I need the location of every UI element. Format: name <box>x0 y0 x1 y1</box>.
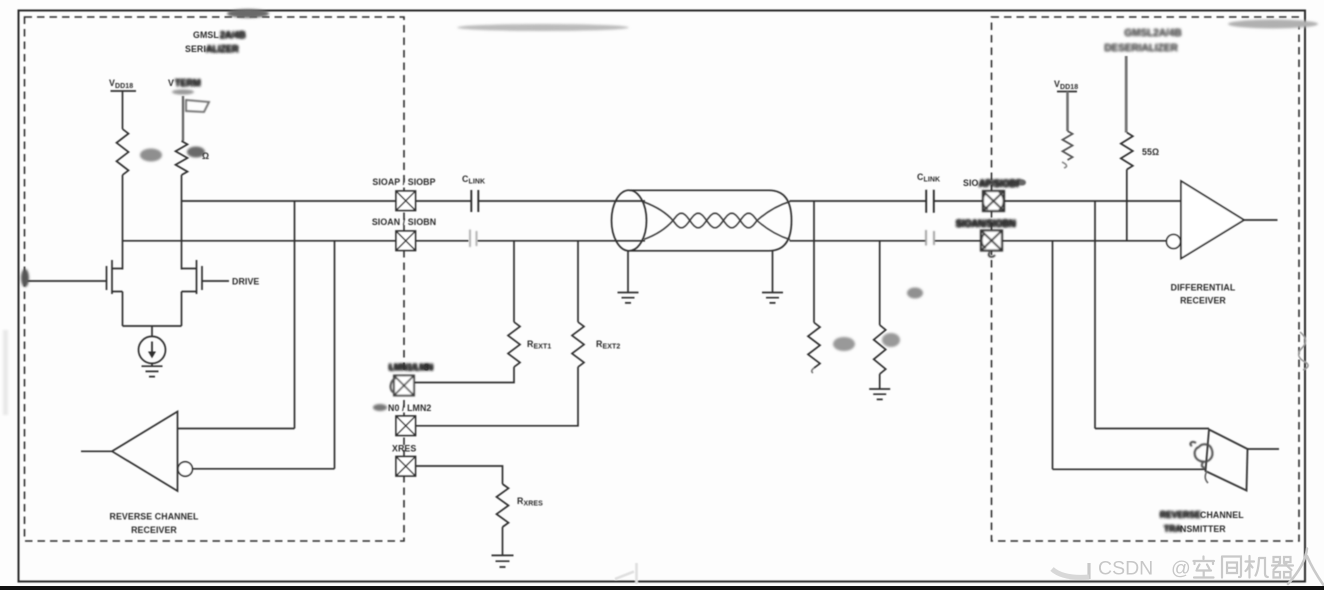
smudge label beside RT1 <box>833 337 855 351</box>
resistor RT1 (no ground, fades) <box>808 323 820 369</box>
svg-text:DRIVE: DRIVE <box>232 277 259 287</box>
twisted pair strand B <box>673 213 757 228</box>
smudged dashes on bottom dashed line (left) <box>200 539 420 543</box>
wire SIOAP to transmitter input (top) <box>1095 201 1209 429</box>
scan smear on transmitter feedback wire <box>1095 300 1097 420</box>
wire R2 to SIOAP line and Q2 drain <box>181 175 183 270</box>
svg-text:CHANNEL: CHANNEL <box>1200 510 1244 520</box>
pad deserializer SIO bottom (smudged) <box>981 231 1002 257</box>
svg-text:SIOAN/SIOBN: SIOAN/SIOBN <box>956 219 1016 229</box>
ground (RXRES) <box>492 555 514 567</box>
pad SIOAN/SIOBN <box>396 231 416 251</box>
resistor RXRES <box>497 484 509 527</box>
wire U4 output <box>1248 448 1280 450</box>
wire SIOAN to transmitter input (bottom) <box>1053 241 1206 469</box>
wire Q2 gate lead <box>202 280 229 282</box>
svg-text:RECEIVER: RECEIVER <box>1180 296 1226 306</box>
ground (shield left) <box>618 293 639 303</box>
svg-text:Ω: Ω <box>202 151 209 161</box>
svg-text:SIOAP / SIOBP: SIOAP / SIOBP <box>372 177 435 187</box>
capacitor CLINK top-right <box>926 190 934 213</box>
twisted pair strand A <box>673 213 757 228</box>
svg-text:GMSL2A/4B: GMSL2A/4B <box>1124 28 1181 39</box>
flag-shaped scan artifact below VTERM <box>186 100 209 112</box>
scan smudge top-center <box>457 24 629 31</box>
current source I1 <box>139 336 166 363</box>
svg-text:TERM: TERM <box>175 78 201 88</box>
scan smear on REXT1 wire <box>514 252 517 320</box>
pad LMN0/LMN2 <box>396 416 416 436</box>
svg-text:SERI: SERI <box>185 44 206 54</box>
resistor 55 ohm <box>1121 133 1133 170</box>
ground (current source) <box>142 366 163 376</box>
wire R1 to SIOAN line and Q1 drain <box>122 175 124 270</box>
serializer dashed box <box>25 17 405 541</box>
deserializer dashed box <box>992 17 1300 541</box>
resistor RT2 <box>874 325 886 374</box>
wire SIOAN to REXT1 <box>513 241 515 322</box>
watermark smear bracket <box>1069 563 1089 578</box>
artifact blob at left border near Q1 gate <box>22 258 25 305</box>
wire VDD18 to R1 <box>122 91 124 129</box>
svg-text:ALIZER: ALIZER <box>206 44 239 54</box>
transistor Q1 (left NMOS) <box>107 260 123 326</box>
smudge label beside RT2 <box>882 333 900 347</box>
wire SIOAP to reverse receiver top input <box>178 201 295 429</box>
pad XRES <box>396 457 416 477</box>
wire U2 output <box>81 450 112 452</box>
inverting bubble U2 <box>178 462 192 476</box>
bottom black bar <box>0 586 1324 590</box>
capacitor (faint, bottom-right) <box>926 230 934 246</box>
pad LMN1/LMN3 (smudged) <box>391 376 414 396</box>
svg-text:GMSL: GMSL <box>193 30 219 40</box>
svg-text:NSMITTER: NSMITTER <box>1180 524 1226 534</box>
inverting bubble U3 <box>1167 235 1181 249</box>
svg-text:55Ω: 55Ω <box>1142 147 1159 157</box>
scribbled bubble on U4 <box>1190 442 1212 468</box>
svg-text:AP/SIOBP: AP/SIOBP <box>979 179 1022 189</box>
svg-text:V: V <box>168 78 174 88</box>
buffer U4 reverse channel transmitter (skewed scan) <box>1206 430 1248 491</box>
wire shield stub left <box>627 251 629 293</box>
scan smear on feedback wire <box>295 345 298 425</box>
svg-text:RECEIVER: RECEIVER <box>131 525 177 535</box>
twisted pair converge wires <box>644 202 790 240</box>
op-amp U3 differential receiver <box>1181 181 1244 259</box>
resistor (VDD18 pullup, fading) <box>1063 131 1073 160</box>
label LMN0 / LMN2 <box>373 404 387 411</box>
svg-text:DESERIALIZER: DESERIALIZER <box>1104 43 1178 54</box>
svg-text:CSDN: CSDN <box>1098 558 1153 580</box>
svg-text:TRA: TRA <box>1164 524 1181 534</box>
svg-text:@: @ <box>1171 558 1191 580</box>
op-amp U2 reverse channel receiver <box>112 412 178 492</box>
ground (RT2) <box>869 389 890 399</box>
faint smear left border low <box>3 330 8 415</box>
wire VTERM to R2 <box>182 96 184 141</box>
ground (shield right) <box>762 293 783 303</box>
capacitor CLINK top-left <box>471 190 478 212</box>
pad SIOAP/SIOBP <box>396 191 416 211</box>
wire current source to ground <box>151 363 153 366</box>
scan smudge top-left <box>227 9 269 18</box>
wire 55-ohm to SIOAN line <box>1126 170 1128 241</box>
smudged dashes on bottom dashed line (right) <box>1048 537 1168 541</box>
resistor REXT2 <box>572 322 584 367</box>
wire RXRES to ground <box>502 527 504 555</box>
svg-text:3: 3 <box>424 363 429 373</box>
wire Q1 gate lead <box>27 280 107 282</box>
wire common source bar <box>123 326 182 337</box>
smudge artifact above RT2 <box>907 288 923 299</box>
resistor R1 (serializer left) <box>117 129 129 175</box>
svg-text:SIOAN / SIOBN: SIOAN / SIOBN <box>372 217 436 227</box>
wire XRES pad to RXRES <box>416 466 503 484</box>
smudge artifact beside R1 <box>140 149 162 162</box>
svg-text:REVERSE CHANNEL: REVERSE CHANNEL <box>110 512 200 522</box>
faint X artifact bottom-center <box>615 563 637 584</box>
wire SIOAN line (bottom differential line) <box>123 240 1167 242</box>
squiggle artifact on right border <box>1299 332 1308 370</box>
wire SIOAP line (top differential line) <box>182 200 1182 202</box>
svg-text:REVERSE: REVERSE <box>1160 510 1201 520</box>
wire SIOAN to reverse receiver inverting input <box>193 241 335 469</box>
capacitor (faint, bottom-left) <box>470 230 477 248</box>
svg-text:SIO: SIO <box>963 178 979 188</box>
shielded twisted-pair cable body <box>629 190 792 251</box>
scan dot left of receiver <box>1019 180 1026 186</box>
svg-text:2A/4B: 2A/4B <box>220 30 246 40</box>
resistor R2 with 50-ohm label (serializer) <box>176 141 188 175</box>
wire VDD18 down (gray) <box>1066 92 1069 132</box>
wire SIOAN line to RT2 <box>879 241 881 325</box>
svg-text:N0 / LMN2: N0 / LMN2 <box>388 403 431 413</box>
resistor REXT1 <box>508 322 520 367</box>
wire REXT2 to LMN0/LMN2 pad <box>416 367 579 426</box>
scan smear on SIOAN feedback wire <box>335 300 337 440</box>
transistor Q2 (right NMOS, gate DRIVE) <box>182 260 203 326</box>
scan smudge top-right <box>1228 20 1318 29</box>
pad deserializer SIO top (smudged) <box>983 191 1004 211</box>
wire 55-ohm pullup upper (gray) <box>1125 56 1128 133</box>
wire U3 output <box>1244 219 1278 221</box>
wire SIOAP line to RT1 <box>813 201 815 323</box>
wire shield stub right <box>772 251 774 293</box>
wire REXT1 to LMN pad <box>415 367 515 383</box>
wire SIOAN to REXT2 <box>577 241 579 322</box>
svg-text:XRES: XRES <box>392 444 416 454</box>
svg-text:DIFFERENTIAL: DIFFERENTIAL <box>1171 283 1236 293</box>
wire RT2 to ground <box>879 374 881 389</box>
